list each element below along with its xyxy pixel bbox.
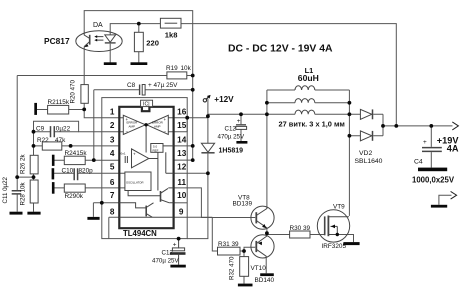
- transistor VT9 IRF3205 circle: [317, 210, 349, 242]
- svg-text:−: −: [126, 130, 129, 135]
- resistor R31 39: [218, 247, 241, 255]
- svg-text:VD2: VD2: [359, 150, 372, 157]
- wire: LED anode / 220 / 1k8 top rail to output feedback (long top wire, down at right to output node): [110, 24, 396, 126]
- wire: R22 row to pin 3: [34, 145, 120, 147]
- wire: R24 row (pin 4): [54, 159, 119, 161]
- svg-text:C9: C9: [36, 126, 45, 133]
- svg-text:2: 2: [110, 121, 115, 130]
- wire: 220 resistor leads: [138, 24, 140, 63]
- inductor L1 coil row 3: [295, 110, 315, 114]
- junction node: R24/pin4: [92, 158, 96, 162]
- svg-text:R26 2k: R26 2k: [20, 153, 27, 174]
- wire: inductor row 2: [267, 102, 350, 104]
- wire: far-left rail down to C11: [16, 76, 18, 191]
- junction node: C9 left: [32, 130, 36, 134]
- IC1 pin9/10 internal rail: [119, 203, 173, 217]
- phototransistor of PC817: [84, 31, 89, 47]
- resistor 220: [134, 32, 143, 51]
- junction node: R22 left: [32, 144, 36, 148]
- wire: VD2 top diode row: [349, 113, 383, 115]
- svg-text:+12V: +12V: [214, 95, 234, 104]
- svg-text:R2115k: R2115k: [48, 99, 70, 106]
- junction node: C12 bottom bus: [177, 237, 181, 241]
- svg-text:1Н5819: 1Н5819: [219, 148, 244, 155]
- junction node: C8 right: [191, 88, 195, 92]
- IC pin numbers left: [110, 108, 115, 217]
- svg-text:SBL1640: SBL1640: [355, 158, 383, 165]
- wire: pin 7 row and ground stub: [93, 203, 119, 217]
- svg-text:+: +: [164, 117, 167, 122]
- junction node: R31/R32/VT10 base: [242, 249, 246, 253]
- junction node: +12V/pin12: [206, 171, 210, 175]
- diode 1N5819: [201, 143, 214, 152]
- wire: +12V vertical with 1N5819 in series down to pin 12: [207, 99, 209, 174]
- svg-text:C8: C8: [127, 82, 136, 89]
- +12V supply arrow: [203, 99, 206, 102]
- wire: output ground arrow stub: [439, 195, 452, 205]
- wire: pin 14 row to feedback line: [174, 145, 193, 147]
- svg-text:10: 10: [177, 191, 187, 200]
- inductor L1 coil row 1: [295, 86, 315, 90]
- wire: R20 top - optocoupler emitter line: [83, 47, 85, 110]
- wire: output rail to +19V arrow: [396, 125, 452, 127]
- diode VD2b SBL1640: [360, 131, 371, 141]
- PARTS_START: [12, 18, 442, 276]
- emitter arrow VT10: [258, 242, 262, 246]
- junction node: pin13/feedback: [191, 158, 195, 162]
- light arrows of PC817: [97, 37, 103, 41]
- wire: inductor right column continuing as VT9 drain: [348, 90, 350, 216]
- IC1 internal transistor Q1: [160, 191, 162, 202]
- wire: C4 stem and ground lead: [430, 126, 432, 168]
- ground under C11: [10, 212, 23, 215]
- IC1 error amplifier 1 (left triangle): [123, 115, 145, 134]
- transistor VT8 internals: [255, 212, 257, 223]
- wire: R21 row: [37, 109, 84, 111]
- VT9 gate bar: [324, 216, 326, 235]
- svg-text:4: 4: [110, 149, 115, 158]
- svg-text:AMP: AMP: [154, 125, 161, 129]
- VT9 body-diode arrow lead: [331, 225, 338, 227]
- svg-text:+: +: [133, 152, 136, 157]
- wire: C8 row (47u) from vertical branch to feedback line: [94, 89, 193, 91]
- resistor R32 470: [240, 257, 249, 277]
- capacitor C10 820p: [74, 168, 77, 180]
- wire: VD2 bottom diode row: [349, 135, 383, 137]
- svg-text:TL494CN: TL494CN: [123, 229, 157, 238]
- svg-text:+ 47µ 25V: + 47µ 25V: [148, 82, 178, 89]
- svg-text:R32 470: R32 470: [228, 256, 235, 280]
- resistor R29: [64, 184, 85, 192]
- wire: VT9 source to ground: [337, 235, 353, 243]
- wire: R20/R21 junction to pin 1 row: [84, 109, 123, 117]
- IC pin numbers right: [177, 108, 187, 217]
- wire: ground bus extension to +12V line bottom: [187, 173, 208, 238]
- ground C4: [418, 168, 447, 172]
- junction node: inductor col row2: [265, 101, 269, 105]
- wire: pin 12 row (Vcc) to +12V line: [174, 172, 208, 174]
- +19V output arrowhead: [452, 122, 458, 130]
- wire: R19 row from far-left rail to feedback line: [17, 75, 193, 77]
- resistor R24 15k: [64, 156, 85, 164]
- IC1 internal transistor Q2: [145, 206, 147, 217]
- junction node: rail/C11: [15, 175, 19, 179]
- svg-text:R290k: R290k: [65, 193, 84, 200]
- svg-text:C12: C12: [162, 250, 174, 257]
- svg-text:DA: DA: [93, 22, 103, 29]
- svg-text:R30 39: R30 39: [290, 225, 311, 232]
- label IC1 box: [141, 100, 153, 106]
- resistor R22 47k: [42, 142, 62, 150]
- emitter arrow VT8: [262, 224, 266, 228]
- svg-text:R19: R19: [166, 65, 178, 72]
- resistor R26 2k: [30, 155, 38, 174]
- svg-text:0µ22: 0µ22: [56, 126, 71, 133]
- svg-text:10k: 10k: [181, 65, 192, 72]
- IC1 5.0V reference box: [151, 144, 163, 153]
- junction node: error amps: [144, 123, 147, 126]
- ground under 220: [131, 62, 148, 65]
- svg-text:7: 7: [110, 191, 115, 200]
- junction node: output feedback: [394, 124, 398, 128]
- svg-text:27 витк. 3 х 1,0 мм: 27 витк. 3 х 1,0 мм: [279, 119, 345, 128]
- junction node: C12 top: [239, 112, 243, 116]
- junction node: pin7 at frame: [100, 201, 104, 205]
- capacitor C4 1000x25V: [422, 148, 442, 152]
- svg-text:AMP: AMP: [129, 125, 136, 129]
- svg-text:470µ 25V: 470µ 25V: [218, 133, 245, 140]
- terminal bar R24: [52, 155, 55, 166]
- svg-text:C11 0µ22: C11 0µ22: [2, 176, 9, 203]
- ground VT9: [343, 242, 359, 245]
- junction node: C4 top: [429, 124, 433, 128]
- wire: pin 16 row to +12V line: [168, 117, 208, 119]
- capacitor C11 0u22: [12, 191, 22, 194]
- svg-text:820p: 820p: [79, 167, 94, 174]
- wire: rail-to-divider link at y=177: [17, 176, 33, 178]
- wire: inductor row 3: [267, 113, 350, 115]
- svg-text:1k8: 1k8: [165, 30, 178, 39]
- wire: pin 13 row to feedback line: [174, 159, 193, 161]
- svg-text:R31 39: R31 39: [218, 241, 239, 248]
- capacitor C8 47u 25V (electrolytic): [139, 85, 141, 96]
- VT9 channel bar: [327, 216, 329, 237]
- svg-text:R22: R22: [37, 137, 49, 144]
- wire: left column through R26/R28 to ground: [33, 132, 35, 212]
- capacitor C12 470u 25V (top, electrolytic): [236, 124, 246, 126]
- svg-text:15: 15: [177, 121, 187, 130]
- svg-text:220: 220: [146, 39, 159, 48]
- junction node: VT9 source internal: [336, 233, 339, 236]
- ground under PC817 LED: [104, 62, 117, 65]
- wire: R29 row (pin 6): [54, 187, 125, 189]
- svg-text:4A: 4A: [447, 144, 459, 154]
- junction node: right col row2: [348, 101, 352, 105]
- VT9 internal arrow: [331, 225, 335, 229]
- svg-text:REF: REF: [153, 149, 159, 153]
- svg-text:8: 8: [110, 207, 115, 216]
- wire: optocoupler collector to feedback line (top-left horizontal + vertical to pins 13/14): [84, 11, 193, 161]
- svg-text:0n1: 0n1: [121, 152, 126, 156]
- terminal bar R29: [52, 182, 55, 194]
- arrowheads of PC817 light arrows: [94, 35, 97, 38]
- svg-text:VT9: VT9: [333, 203, 345, 210]
- ground output arrow: [431, 205, 447, 208]
- transistor VT8 BD139 circle: [251, 206, 274, 229]
- svg-text:13: 13: [177, 149, 187, 158]
- junction node: inductor col row3: [265, 112, 269, 116]
- IC1 comparator input mini-capacitor: [125, 156, 127, 163]
- wire: C9 row: [34, 131, 79, 133]
- wire: VT10 collector to ground: [265, 258, 267, 274]
- VT9 drain/source internal leads: [328, 217, 349, 235]
- wire: inductor row 1: [267, 89, 350, 91]
- wire: pin 10 row: [174, 202, 188, 204]
- svg-text:9: 9: [179, 207, 184, 216]
- svg-text:C10: C10: [62, 167, 74, 174]
- svg-text:11: 11: [177, 178, 186, 187]
- wire: pin 15 row and tie to pin 16: [168, 118, 187, 132]
- ground under R28: [27, 212, 40, 215]
- inductor L1 coil row 2: [295, 99, 315, 103]
- transistor VT10 BD140 circle: [251, 235, 274, 258]
- svg-text:+: +: [423, 139, 427, 146]
- junction node: VT8/VT10 emitters: [265, 231, 269, 235]
- resistor 1k8: [160, 18, 181, 28]
- wire: inductor left column down to VT8 collector: [266, 90, 268, 206]
- IC1 error amp output node vertical: [145, 125, 147, 153]
- svg-text:5: 5: [110, 163, 115, 172]
- terminal bar R21: [34, 103, 37, 115]
- svg-text:VT10: VT10: [251, 265, 267, 272]
- IC internal tiny texts: [121, 121, 164, 185]
- transistor VT10 internals: [255, 241, 257, 252]
- junction node: pin14/feedback: [191, 144, 195, 148]
- wire: LED cathode to ground: [109, 44, 111, 63]
- svg-text:12: 12: [177, 163, 187, 172]
- svg-text:1: 1: [110, 108, 115, 117]
- svg-text:60uH: 60uH: [298, 73, 319, 83]
- resistor R20 470: [81, 85, 88, 104]
- resistor R21 15k: [48, 105, 69, 114]
- svg-text:DC - DC 12V - 19V 4A: DC - DC 12V - 19V 4A: [228, 44, 333, 55]
- svg-text:PC817: PC817: [44, 36, 70, 46]
- svg-text:16: 16: [177, 108, 187, 117]
- svg-text:1000,0x25V: 1000,0x25V: [412, 176, 455, 185]
- junction node: R20/R21: [82, 108, 86, 112]
- junction node: R22 right: [69, 144, 73, 148]
- IC outer ladder: internal TL494 body: [119, 107, 173, 228]
- IC1 reference box leads: [149, 146, 174, 191]
- capacitor C12 470u 25V (bottom, electrolytic): [172, 248, 184, 251]
- ground pin 7: [87, 217, 99, 220]
- ground VT10: [260, 273, 274, 276]
- wire: C10 row (pin 5): [54, 172, 125, 174]
- svg-text:IRF3205: IRF3205: [322, 243, 347, 250]
- resistor R30 39: [290, 231, 310, 238]
- diode VD2a SBL1640: [360, 109, 371, 119]
- svg-text:R28 10k: R28 10k: [20, 182, 27, 206]
- resistor R28 10k: [30, 180, 38, 203]
- junction node: pin16/15 tie: [185, 116, 189, 120]
- svg-text:IC|: IC|: [143, 102, 150, 108]
- wire: pin 8 row down to ground bus: [109, 217, 120, 238]
- wire: +12V row to inductor column: [208, 113, 267, 115]
- IC1 error amplifier 2 (right triangle): [147, 115, 169, 134]
- svg-text:C12: C12: [225, 126, 237, 133]
- wire: VD2 cathode column and output tap: [383, 114, 396, 136]
- svg-text:R20 470: R20 470: [70, 80, 77, 104]
- capacitor C9 0u22: [51, 126, 55, 137]
- wire: IC outer frame: [102, 98, 187, 239]
- resistor R19 10k: [167, 72, 187, 79]
- svg-text:3: 3: [110, 135, 115, 144]
- svg-text:6: 6: [110, 178, 115, 187]
- junction node: right col drain: [348, 134, 352, 138]
- svg-text:14: 14: [177, 135, 187, 144]
- svg-text:R2415k: R2415k: [65, 150, 88, 157]
- wire: pin 9 row down to R31: [174, 217, 218, 251]
- svg-text:C4: C4: [414, 158, 423, 165]
- terminal bar C10: [52, 168, 55, 179]
- svg-text:+: +: [126, 117, 129, 122]
- LED of PC817: [105, 35, 116, 42]
- optocoupler DA PC817 body: [76, 31, 122, 52]
- IC1 dead-time comparator (op-amp triangle): [132, 149, 149, 168]
- IC1 oscillator box: [125, 172, 151, 191]
- wire: C12 stem and ground lead: [240, 114, 242, 141]
- svg-text:+: +: [173, 242, 177, 249]
- svg-text:BD140: BD140: [255, 277, 275, 284]
- svg-text:BD139: BD139: [233, 200, 253, 207]
- wire: pin 11 row to driver bases: [174, 188, 256, 218]
- junction node: VD2 cathode tap: [381, 124, 385, 128]
- ground C12 bottom: [170, 265, 185, 268]
- wire: C11 bottom to ground: [16, 194, 18, 212]
- wire: C8 branch vertical down to pin4 row: [93, 90, 95, 160]
- svg-text:+: +: [237, 118, 241, 125]
- svg-text:−: −: [164, 130, 167, 135]
- wire: VT8/VT10 emitter node to R30 to VT9 gate: [267, 229, 324, 234]
- junction node: R26/R28: [32, 175, 36, 179]
- wire: C9 bypass loop to pin 2 row: [34, 121, 124, 132]
- emitter arrow of PC817 phototransistor: [84, 44, 88, 47]
- svg-text:47k: 47k: [55, 137, 66, 144]
- junction node: right col row3: [348, 112, 352, 116]
- junction node: 220 top: [137, 22, 141, 26]
- output ground arrowhead: [451, 191, 457, 199]
- wire: R31 right to VT10 base node, R32 stem: [240, 247, 255, 283]
- junction node: R19 right: [191, 74, 195, 78]
- svg-text:OSCILLATOR: OSCILLATOR: [126, 181, 143, 185]
- junction node: +12V/pin16: [206, 114, 210, 118]
- svg-text:470µ 25V: 470µ 25V: [152, 257, 179, 264]
- ground C12 top: [236, 141, 247, 144]
- ground R32: [238, 284, 253, 287]
